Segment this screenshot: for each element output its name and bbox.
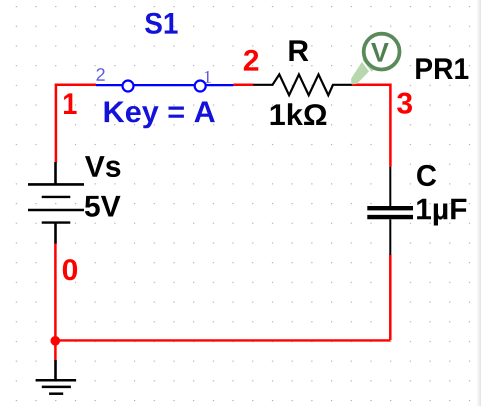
wire: top-left red segment and left vertical bbox=[56, 85, 96, 163]
battery bottom stub bbox=[54, 223, 57, 244]
label 5V bbox=[85, 196, 121, 217]
capacitor plate bottom bbox=[367, 215, 413, 219]
capacitor bottom lead bbox=[389, 219, 391, 255]
label C bbox=[417, 165, 436, 186]
ground bar 2 bbox=[42, 386, 71, 389]
probe PR1 needle shaft bbox=[351, 62, 369, 84]
label R bbox=[289, 40, 308, 61]
ground stub bbox=[54, 360, 57, 380]
ground bar 1 bbox=[36, 379, 77, 382]
battery plate 3 (long) bbox=[28, 209, 84, 212]
node label 1 bbox=[64, 93, 77, 114]
switch pin label 2 bbox=[97, 68, 105, 81]
junction dot bbox=[51, 336, 61, 346]
resistor R bbox=[253, 74, 352, 95]
ground bar 3 bbox=[49, 392, 63, 395]
wire: red from resistor to corner, down to capacitor bbox=[352, 85, 390, 167]
battery plate 4 (short) bbox=[42, 221, 71, 223]
label 1kOhm bbox=[271, 103, 327, 125]
switch S1 blue wire bbox=[96, 84, 233, 86]
capacitor C top lead bbox=[389, 167, 391, 206]
battery Vs top stub bbox=[54, 162, 57, 184]
node label 0 bbox=[63, 259, 77, 280]
wire: left vertical bottom red (battery to junction to ground stub) bbox=[54, 243, 57, 361]
label PR1 bbox=[416, 58, 468, 79]
node label 2 bbox=[244, 50, 258, 71]
label Vs bbox=[85, 156, 120, 177]
switch terminal circle left bbox=[123, 81, 134, 92]
label Key = A bbox=[105, 102, 215, 129]
probe PR1 ring bbox=[364, 34, 400, 70]
wire: red segment between switch and resistor bbox=[233, 84, 253, 87]
switch pin label 1 bbox=[205, 71, 211, 83]
wire: red below capacitor bbox=[389, 255, 392, 340]
label 1uF bbox=[417, 199, 466, 226]
switch terminal circle right bbox=[195, 81, 206, 92]
wire: bottom horizontal red bbox=[55, 339, 390, 341]
probe V glyph bbox=[371, 43, 389, 62]
battery plate 1 (long) bbox=[28, 183, 84, 186]
probe PR1 needle end piece bbox=[362, 57, 374, 71]
battery plate 2 (short) bbox=[42, 196, 71, 198]
node label 3 bbox=[397, 93, 412, 114]
capacitor plate top bbox=[367, 206, 413, 210]
label S1 bbox=[145, 13, 178, 34]
